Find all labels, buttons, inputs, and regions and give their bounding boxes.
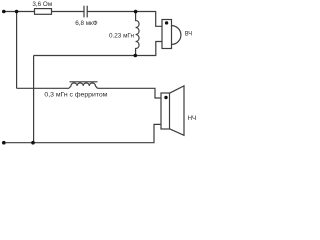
- wire mid rail (coil bottom to left riser): [34, 55, 136, 57]
- wire left riser down to bottom junction: [33, 56, 35, 143]
- svg-text:НЧ: НЧ: [188, 115, 197, 122]
- svg-text:0,3 мГн с ферритом: 0,3 мГн с ферритом: [44, 92, 107, 99]
- svg-text:ВЧ: ВЧ: [185, 31, 192, 38]
- wire coil top node to tweeter corner: [136, 12, 162, 27]
- inductor 0,3 мГн с ферритом (series coil): [69, 83, 98, 88]
- svg-text:0.23 мГн: 0.23 мГн: [109, 32, 135, 39]
- woofer НЧ cone: [170, 86, 185, 135]
- woofer polarity dot: [164, 96, 167, 99]
- wire top rail left (input + to resistor): [4, 11, 35, 13]
- tweeter ВЧ driver rectangle: [162, 20, 172, 49]
- capacitor 6,8 мкФ left plate: [83, 6, 85, 18]
- wire bottom rail right (junction to woofer return): [33, 124, 161, 142]
- ferrite core bar: [70, 81, 98, 83]
- junction dot coil bottom: [134, 54, 138, 58]
- svg-text:6,8 мкФ: 6,8 мкФ: [75, 20, 98, 27]
- wire bottom rail left (to input -): [4, 142, 34, 144]
- wire left branch down from top junction: [16, 12, 18, 89]
- tweeter polarity dot: [165, 21, 168, 24]
- junction dot bottom node: [31, 141, 35, 145]
- wire to series inductor: [17, 87, 69, 89]
- resistor 3,6 Ом body: [35, 9, 52, 15]
- junction dot top node: [15, 10, 19, 14]
- wire inductor to woofer: [98, 88, 162, 98]
- junction dot coil top: [134, 10, 138, 14]
- wire resistor to capacitor: [52, 11, 84, 13]
- wire capacitor to coil top node: [87, 11, 135, 13]
- inductor 0.23 мГн (shunt coil): [136, 12, 139, 56]
- wire tweeter return to coil bottom node: [136, 42, 162, 56]
- capacitor 6,8 мкФ right plate: [86, 6, 88, 18]
- tweeter ВЧ dome: [172, 26, 181, 45]
- junction dot input - terminal: [2, 141, 6, 145]
- woofer НЧ driver rectangle: [161, 93, 170, 129]
- junction dot input + terminal: [2, 10, 6, 14]
- svg-text:3,6 Ом: 3,6 Ом: [32, 1, 52, 8]
